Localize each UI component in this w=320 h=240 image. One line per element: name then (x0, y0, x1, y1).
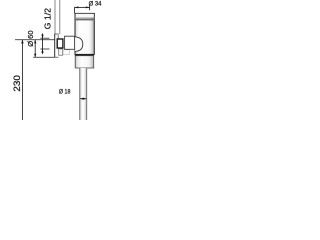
svg-text:Ø 60: Ø 60 (26, 30, 35, 46)
inlet bore white area behind fillet (75, 37, 83, 52)
cap dark ring band (75, 18, 94, 20)
thick separation line under body (75, 54, 94, 56)
dimension Ø34: left extension line (74, 7, 76, 13)
rosette rim front edge (57, 34, 59, 39)
dimension G1/2: bottom extension segment (40, 48, 49, 50)
dimension Ø60: vertical line at rosette (34, 40, 36, 58)
outlet pipe Ø18 (80, 68, 87, 120)
inlet fillet curve on body (75, 37, 83, 52)
dimension Ø18: right arrowhead (inside pointing right) (83, 98, 87, 100)
dimension G1/2: bottom arrowhead (outside, pointing up) (41, 49, 43, 53)
valve body main cylinder (75, 13, 94, 54)
svg-text:Ø 34: Ø 34 (89, 1, 102, 8)
svg-text:230: 230 (12, 75, 22, 91)
dimension 230: top arrowhead (21, 40, 24, 44)
lower connection box (75, 56, 94, 68)
dimension 230: vertical line (runs off bottom) (21, 40, 23, 120)
rosette bottom edge (54, 56, 58, 58)
dimension Ø18: left arrowhead (inside pointing left) (80, 98, 86, 100)
dimension Ø60: bottom extension line to rosette (33, 56, 54, 58)
dimension Ø60: bottom arrowhead (34, 54, 36, 58)
dimension Ø60: top arrowhead (34, 40, 36, 44)
wire: cropped extension line from rosette (left) (54, 0, 56, 34)
svg-text:G 1/2: G 1/2 (44, 8, 53, 30)
dimension G1/2: vertical line through socket (42, 33, 44, 54)
wall rosette back plate (54, 34, 56, 57)
shared horizontal reference extension line at inlet (15, 39, 55, 41)
svg-text:Ø 18: Ø 18 (59, 89, 71, 96)
inlet socket (thick black square) (57, 39, 63, 48)
dimension Ø34: line (75, 6, 90, 8)
dimension Ø34: left arrowhead (75, 6, 79, 8)
cap upper white zone (76, 14, 94, 18)
casting step below nut (63, 50, 69, 55)
bleed screw box below socket (59, 49, 63, 55)
dimension Ø34: right arrowhead (86, 6, 90, 8)
dimension G1/2: top arrowhead (outside, pointing down) (41, 35, 43, 39)
wire: cropped extension line from rosette rim (right) (59, 0, 61, 34)
dimension G1/2: top extension segment (40, 37, 49, 39)
union nut on inlet (65, 36, 75, 49)
cap top band line (75, 17, 94, 19)
rosette top edge (54, 33, 58, 35)
dimension Ø34: right extension line (89, 6, 91, 11)
